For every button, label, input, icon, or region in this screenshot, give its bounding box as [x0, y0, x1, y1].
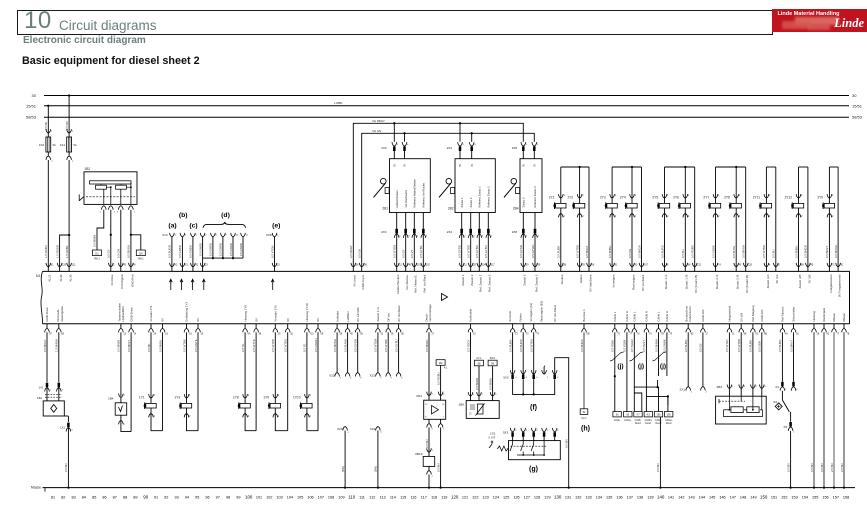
svg-text:2: 2 [464, 236, 466, 238]
solenoid valve 1Y9 [263, 394, 280, 418]
wire 5X3-5 to ground drop [555, 358, 570, 489]
svg-text:0.5 WTGN: 0.5 WTGN [374, 339, 378, 352]
connector X22 group label [369, 374, 375, 378]
svg-text:1.5 RDBU: 1.5 RDBU [44, 245, 48, 258]
pin N1 to X23:4 [343, 324, 353, 380]
svg-text:Masse: Masse [842, 313, 846, 322]
svg-text:CANb-: CANb- [635, 419, 642, 422]
svg-text:119: 119 [748, 263, 752, 266]
wire 1Y10 return [314, 332, 318, 430]
svg-text:152: 152 [781, 495, 787, 499]
svg-text:52: 52 [583, 411, 586, 414]
pin N1:29 [468, 263, 476, 272]
svg-text:2X8: 2X8 [512, 146, 518, 150]
svg-text:102: 102 [426, 263, 431, 266]
svg-text:5B: 5B [587, 333, 590, 336]
svg-text:3: 3 [526, 377, 528, 379]
svg-text:2: 2 [635, 215, 637, 218]
svg-text:Zusatz 3: Zusatz 3 [522, 197, 526, 208]
wire return 2Y1/2Y2 label [585, 245, 589, 258]
svg-text:7A: 7A [649, 333, 652, 336]
pin N1:61 [46, 263, 54, 272]
svg-text:1Y3: 1Y3 [174, 395, 180, 399]
wires N1 to CAN [611, 324, 673, 376]
svg-text:Neigewinkel: Neigewinkel [728, 306, 732, 322]
pin N1:A2 [170, 263, 178, 272]
svg-text:2X4: 2X4 [447, 146, 453, 150]
svg-text:CANs L: CANs L [613, 311, 617, 321]
connector X6 [783, 422, 795, 434]
svg-text:0V 3/A: 0V 3/A [775, 275, 779, 284]
wire N1 to 1Y1 [147, 332, 151, 398]
svg-text:(a): (a) [168, 223, 176, 230]
svg-text:0.5 WTBU: 0.5 WTBU [284, 339, 288, 352]
svg-text:Heizung 1Y8: Heizung 1Y8 [243, 305, 247, 322]
svg-text:195: 195 [667, 414, 672, 417]
svg-text:27: 27 [432, 333, 435, 336]
pin N1:32 [468, 324, 476, 336]
svg-text:92: 92 [635, 263, 638, 266]
svg-text:2.5 BN: 2.5 BN [830, 463, 834, 472]
pin N1:19 [521, 263, 529, 272]
label (g) [529, 466, 538, 473]
svg-text:0.5 YE: 0.5 YE [241, 344, 245, 352]
wire F10 to N1 [44, 160, 48, 267]
svg-text:149: 149 [750, 495, 756, 499]
pin N1:93 [577, 263, 585, 272]
wire 1Y1 loop [151, 413, 163, 430]
pin N1:T10 [305, 324, 315, 336]
svg-text:Luftfilter: Luftfilter [346, 311, 350, 321]
svg-text:CANb+: CANb+ [645, 419, 653, 422]
svg-text:2: 2 [51, 161, 53, 163]
svg-text:127: 127 [524, 495, 530, 499]
svg-text:82: 82 [691, 333, 694, 336]
wire loop 2Y7/2Y8 [716, 166, 746, 267]
connector pin X10:4 [168, 233, 177, 267]
svg-text:F10: F10 [39, 143, 45, 147]
svg-text:20: 20 [290, 333, 293, 336]
svg-text:4: 4 [443, 393, 445, 395]
svg-text:Sitzschalter: Sitzschalter [792, 307, 796, 322]
svg-text:1.5 RDBK: 1.5 RDBK [65, 245, 69, 258]
pin N1:S1 [180, 263, 188, 272]
chapter number 10 [24, 7, 52, 35]
pin N1:36 [351, 263, 359, 272]
svg-text:Kuhlmittel: Kuhlmittel [469, 309, 473, 322]
svg-text:0.5 BU: 0.5 BU [425, 439, 429, 448]
svg-text:10: 10 [236, 234, 239, 236]
svg-text:Ref. Zusatz 3: Ref. Zusatz 3 [534, 274, 538, 292]
svg-text:4: 4 [114, 211, 116, 213]
wire N1 to 2B3-1 [725, 332, 729, 388]
pin N1:50 [791, 324, 799, 336]
svg-text:0.5 BUBN: 0.5 BUBN [778, 340, 782, 352]
svg-text:49: 49 [785, 333, 788, 336]
pin N1:T2 [510, 324, 518, 336]
svg-text:a: a [348, 431, 350, 433]
svg-text:4: 4 [538, 236, 540, 238]
wire bus 58/53 [26, 115, 863, 120]
svg-text:T2: T2 [515, 333, 518, 336]
wire bus 30 [32, 93, 858, 98]
svg-text:10: 10 [380, 333, 383, 336]
svg-text:0.5 BUBK: 0.5 BUBK [749, 340, 753, 352]
svg-text:108: 108 [328, 495, 334, 499]
svg-text:4: 4 [407, 144, 409, 146]
svg-text:1.5 RDGN: 1.5 RDGN [55, 245, 59, 258]
wire loop 2Y11 [766, 167, 775, 267]
pin N1:23 [200, 263, 208, 272]
pin N1:82 [686, 324, 694, 336]
svg-text:0B19: 0B19 [415, 452, 423, 456]
wire 1B2 pin2 to tag 9W1 [93, 210, 104, 250]
svg-text:1: 1 [432, 450, 434, 452]
svg-text:141: 141 [668, 495, 674, 499]
svg-text:125: 125 [503, 495, 509, 499]
svg-text:Zusatz 1: Zusatz 1 [460, 197, 464, 208]
pin N1:12 [394, 263, 402, 272]
N1 pin function labels top [48, 274, 842, 297]
svg-text:24: 24 [154, 333, 157, 336]
switch S4 [773, 391, 790, 422]
svg-text:X6: X6 [783, 425, 787, 429]
solenoid valve 2Y6 [673, 194, 690, 218]
wire N1 to X4-1 [778, 332, 782, 381]
svg-text:CANs-: CANs- [614, 419, 621, 422]
wire return 2Y11 label [772, 249, 776, 258]
svg-text:Referenz Vor-/Ruckw.: Referenz Vor-/Ruckw. [422, 182, 426, 207]
svg-text:Vor-/Ruckwarts: Vor-/Ruckwarts [404, 189, 408, 207]
pin N1 to X23:5 [354, 324, 364, 380]
svg-text:5: 5 [557, 430, 559, 432]
svg-text:5: 5 [277, 234, 279, 236]
svg-text:0.5 BURD: 0.5 BURD [660, 245, 664, 258]
svg-text:4: 4 [350, 377, 352, 379]
connector X4 top [775, 382, 798, 391]
connector pin 5X3:3 (f) [521, 370, 528, 379]
svg-text:2: 2 [793, 432, 795, 434]
pin N1:78 [842, 324, 850, 336]
svg-text:2: 2 [667, 215, 669, 218]
svg-text:3: 3 [473, 236, 475, 238]
svg-text:89: 89 [801, 263, 804, 266]
svg-text:0.5 WTBU: 0.5 WTBU [530, 339, 534, 352]
switch block (g) box [509, 441, 561, 460]
svg-text:109: 109 [338, 495, 344, 499]
svg-text:0.5 BK: 0.5 BK [147, 343, 151, 352]
svg-text:1Y8: 1Y8 [233, 395, 239, 399]
wire 2Y5 to N1 [660, 213, 664, 267]
wire 1Y1 return [158, 332, 162, 430]
solenoid valve 1Y10 [293, 394, 312, 418]
svg-text:2Y8: 2Y8 [724, 195, 730, 199]
svg-text:Ref-Sitzsch.: Ref-Sitzsch. [781, 306, 785, 322]
connector pin X10:8 [209, 233, 218, 258]
svg-text:GND-Poti: GND-Poti [130, 274, 134, 287]
wire tag K2-1 to 1B6 [475, 366, 479, 396]
wire fuse F10 feed [44, 106, 48, 134]
svg-text:78: 78 [847, 333, 850, 336]
CAN terminal blocks [613, 412, 673, 425]
svg-text:D: D [470, 412, 472, 416]
svg-text:3: 3 [495, 394, 497, 396]
pin N1:88 [760, 324, 768, 336]
svg-text:15: 15 [277, 263, 280, 266]
svg-text:2B2: 2B2 [448, 206, 454, 210]
svg-text:0.5 BUWH: 0.5 BUWH [343, 339, 347, 352]
connector 1X1 pins 1 2 [39, 383, 64, 401]
svg-text:CANs+: CANs+ [624, 419, 632, 422]
wire 1B2 pin3 to N1 [117, 210, 121, 267]
svg-text:1: 1 [397, 144, 399, 146]
svg-text:Heizung: Heizung [812, 311, 816, 322]
svg-text:11: 11 [246, 234, 249, 236]
svg-text:121: 121 [462, 495, 468, 499]
wire fuse F11 feed [65, 96, 69, 134]
svg-text:83: 83 [71, 495, 75, 499]
svg-text:147: 147 [730, 495, 736, 499]
chapter title [59, 18, 157, 33]
pin N1:08 [316, 324, 324, 336]
svg-text:Poti-Signal: Poti-Signal [120, 274, 124, 288]
pin N1:86 [587, 263, 595, 272]
wire X6 to ground [786, 431, 791, 489]
svg-text:2: 2 [154, 415, 156, 418]
svg-text:119: 119 [441, 495, 447, 499]
svg-text:0.5 GNRD: 0.5 GNRD [219, 243, 223, 256]
svg-text:0V (1/Aut1 /B): 0V (1/Aut1 /B) [694, 275, 698, 293]
pin N1:4 [764, 263, 771, 272]
svg-text:2: 2 [515, 377, 517, 379]
svg-text:5X3: 5X3 [503, 376, 509, 380]
svg-text:5: 5 [557, 377, 559, 379]
svg-text:1: 1 [801, 194, 803, 197]
svg-text:0V (2/Aut2 /B): 0V (2/Aut2 /B) [745, 275, 749, 293]
pin N1:89 [796, 263, 804, 272]
svg-text:0.5 BNBU: 0.5 BNBU [794, 246, 798, 258]
svg-text:96: 96 [364, 263, 367, 266]
joystick module 2B2 [439, 142, 495, 267]
svg-text:8: 8 [778, 263, 780, 266]
svg-text:1Y10: 1Y10 [293, 395, 301, 399]
svg-text:18: 18 [201, 333, 204, 336]
svg-text:0.5 BKBU: 0.5 BKBU [158, 340, 162, 352]
pin N1:68 [57, 324, 65, 336]
svg-text:1Y1: 1Y1 [139, 395, 145, 399]
wire N1 to 1B4 [117, 332, 121, 396]
solenoid valve 2Y8 [724, 194, 741, 218]
svg-text:1: 1 [739, 194, 741, 197]
reference tag K2-1 (h) [580, 409, 588, 420]
svg-text:113: 113 [380, 495, 386, 499]
solenoid valve 1Y1 [139, 394, 156, 418]
pin N1 to X23:2 [333, 324, 343, 380]
wire 1Y10 loop [307, 413, 318, 430]
svg-text:GND-LIN: GND-LIN [760, 310, 764, 322]
svg-text:3: 3 [744, 386, 746, 388]
connector 9X8 label [266, 233, 272, 237]
svg-text:0.5 BN: 0.5 BN [656, 463, 660, 472]
svg-text:5A: 5A [73, 143, 76, 147]
svg-text:CANe L: CANe L [657, 311, 661, 322]
svg-text:82: 82 [61, 495, 65, 499]
svg-text:144: 144 [699, 495, 705, 499]
svg-text:4.1: 4.1 [444, 367, 448, 370]
svg-text:93: 93 [582, 263, 585, 266]
N1 input arrows [169, 279, 274, 290]
svg-text:0.5 OG: 0.5 OG [628, 249, 632, 258]
connector X10 label [162, 233, 168, 237]
svg-text:0.5 BKVT: 0.5 BKVT [789, 340, 793, 352]
wire loop 2Y5/2Y6 [665, 166, 695, 267]
label (j) 3 [660, 363, 666, 370]
svg-text:VG GN: VG GN [372, 129, 381, 133]
svg-text:2X1: 2X1 [679, 388, 685, 392]
svg-text:(j): (j) [638, 363, 644, 370]
svg-text:1: 1 [443, 416, 445, 418]
wire N1 to 1B4 return [127, 332, 131, 431]
svg-text:2: 2 [615, 215, 617, 218]
wire ground bundle 82 [820, 332, 825, 488]
svg-text:1X1: 1X1 [39, 386, 44, 390]
pin N1:A1 [191, 263, 199, 272]
svg-text:0.5 GYGN: 0.5 GYGN [354, 339, 358, 352]
svg-text:1: 1 [278, 394, 280, 397]
svg-text:130: 130 [554, 494, 562, 499]
pin N1:99 [533, 263, 541, 272]
svg-text:85: 85 [92, 495, 96, 499]
svg-text:76: 76 [617, 333, 620, 336]
svg-text:0.5 GNRD: 0.5 GNRD [229, 243, 233, 256]
svg-text:3: 3 [408, 236, 410, 238]
svg-text:1B4: 1B4 [108, 397, 114, 401]
svg-text:29: 29 [473, 263, 476, 266]
svg-text:S4: S4 [773, 400, 777, 404]
svg-text:77: 77 [837, 333, 840, 336]
svg-text:1: 1 [380, 377, 382, 379]
svg-text:Zusatz 2: Zusatz 2 [469, 197, 473, 208]
svg-text:0.5 WTGN: 0.5 WTGN [393, 245, 397, 258]
wire drop 2B2 supply [460, 123, 472, 142]
svg-text:0V: 0V [316, 318, 320, 322]
pin N1:112 [692, 263, 701, 272]
svg-text:0.5 BUBK: 0.5 BUBK [557, 246, 561, 258]
wire drop 2B1 supply [394, 123, 404, 142]
svg-text:120: 120 [62, 263, 67, 266]
twisted pair symbol 3 [653, 352, 667, 361]
svg-text:2: 2 [688, 215, 690, 218]
temperature sensor 1B6 [458, 392, 499, 418]
pin N1:49 [780, 324, 788, 336]
svg-text:0.5 GY: 0.5 GY [402, 249, 406, 258]
svg-text:11: 11 [464, 263, 467, 266]
pin N1:1 [109, 263, 116, 272]
pin N1:96 [359, 263, 367, 272]
svg-text:96: 96 [205, 495, 209, 499]
node branch junction [68, 234, 70, 236]
svg-text:1B6: 1B6 [458, 403, 464, 407]
svg-text:0V: 0V [254, 318, 258, 322]
svg-text:Heben: Heben [579, 274, 583, 283]
svg-text:2: 2 [801, 215, 803, 218]
svg-text:2: 2 [473, 394, 475, 396]
svg-text:0.5 WTGY: 0.5 WTGY [725, 339, 729, 352]
svg-text:Masse: Masse [832, 313, 836, 322]
svg-text:3: 3 [117, 211, 119, 213]
ground rail Masse [31, 486, 855, 492]
joystick module 2B1 [374, 142, 431, 267]
svg-text:0.5 GNBN: 0.5 GNBN [178, 245, 182, 258]
speed sensor 1B1 [37, 395, 64, 416]
svg-text:(BN): (BN) [341, 466, 345, 472]
svg-text:0.5 BUBN: 0.5 BUBN [684, 340, 688, 352]
svg-text:Heben/Senken: Heben/Senken [395, 190, 399, 208]
wire N1 to 2B3-4 [758, 332, 762, 388]
svg-text:91: 91 [154, 495, 158, 499]
svg-text:2: 2 [432, 393, 434, 395]
svg-text:48: 48 [408, 263, 411, 266]
svg-text:104: 104 [287, 495, 293, 499]
svg-text:2: 2 [832, 215, 834, 218]
svg-text:0.5 WTRD: 0.5 WTRD [271, 339, 275, 352]
svg-text:0.5 RDBU: 0.5 RDBU [436, 372, 440, 385]
connector pin 5X3:4 (f) [531, 370, 538, 379]
svg-text:1A: 1A [165, 333, 168, 336]
wire 1Y9 return [284, 332, 288, 430]
svg-text:Vorneigen: Vorneigen [612, 274, 616, 287]
pin N1:24 [149, 324, 157, 336]
pin N1:63 [184, 324, 192, 336]
svg-text:154: 154 [802, 495, 808, 499]
connector 2X1 [679, 387, 707, 394]
svg-text:X10: X10 [162, 233, 168, 237]
svg-text:sensoranlage: sensoranlage [428, 304, 432, 322]
wire return 2Y12 label [804, 245, 808, 258]
svg-text:30: 30 [32, 93, 37, 98]
svg-text:0.5 BNBU: 0.5 BNBU [608, 246, 612, 258]
svg-text:(c): (c) [189, 223, 197, 230]
solenoid valve 1Y8 [233, 394, 250, 418]
pin N1 to X22:2 [384, 324, 394, 380]
svg-text:0.5 WTBK: 0.5 WTBK [182, 339, 186, 352]
svg-text:58: 58 [340, 333, 343, 336]
svg-text:2: 2 [718, 215, 720, 218]
reference tag K2-1 [475, 357, 484, 366]
svg-text:31: 31 [732, 333, 735, 336]
svg-text:88: 88 [764, 333, 767, 336]
reference tag 4-1 [436, 360, 448, 370]
svg-text:98: 98 [226, 495, 230, 499]
pin N1:T4 [531, 324, 539, 336]
svg-text:3: 3 [71, 430, 73, 432]
svg-text:0.5 GN: 0.5 GN [357, 249, 361, 258]
wire tag W161 to 1B6 [488, 366, 492, 396]
svg-text:98: 98 [688, 263, 691, 266]
svg-text:0.5 BKVT: 0.5 BKVT [825, 246, 829, 258]
svg-text:1: 1 [50, 390, 52, 392]
svg-text:T3: T3 [526, 333, 529, 336]
svg-text:Deutz: Deutz [645, 422, 652, 425]
pin N1 to X22:1 [374, 324, 384, 380]
svg-text:0.5 YEVT: 0.5 YEVT [642, 340, 646, 352]
pin N1:91 [836, 263, 844, 272]
svg-text:2: 2 [124, 424, 126, 426]
svg-text:77: 77 [629, 333, 632, 336]
svg-text:5: 5 [360, 377, 362, 379]
svg-text:124: 124 [493, 495, 499, 499]
wire N1 to 1X1-1 [43, 332, 47, 382]
